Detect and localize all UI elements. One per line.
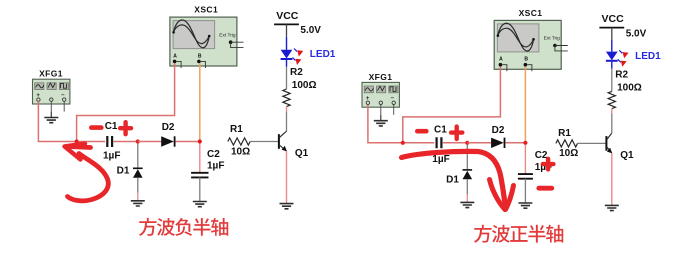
- wire D1 node to D2 anode (left): [138, 141, 161, 143]
- diode D2 series (right): [491, 125, 505, 148]
- svg-text:Q1: Q1: [620, 150, 634, 161]
- oscilloscope XSC1 (right): [494, 8, 568, 71]
- svg-text:VCC: VCC: [602, 13, 625, 25]
- svg-text:Q1: Q1: [295, 148, 309, 159]
- junction: XFG output / scope A tap (right): [401, 141, 405, 145]
- svg-text:D2: D2: [162, 122, 175, 133]
- annotation: red spiral arrow pointing to input wire (left): [65, 144, 109, 201]
- svg-text:A: A: [173, 53, 177, 59]
- wire D1 node to D2 anode (right): [467, 142, 491, 144]
- annotation: red curved arrow over wire pointing down (right): [402, 151, 514, 209]
- wire XFG1 + output to main node (left): [38, 102, 105, 142]
- capacitor C2 1uF to ground (right): [518, 145, 552, 203]
- svg-text:C1: C1: [434, 125, 447, 136]
- LED1 light emitting diode (right): [606, 40, 661, 69]
- svg-text:R2: R2: [290, 67, 303, 78]
- wire scope channel A to input node (right): [403, 66, 501, 142]
- diode D2 series (left): [161, 122, 175, 147]
- svg-text:Ext Trig: Ext Trig: [544, 36, 561, 42]
- svg-text:VCC: VCC: [276, 10, 299, 22]
- svg-text:D1: D1: [117, 165, 130, 176]
- resistor R2 100 ohm (left): [283, 67, 317, 131]
- ground (C2, right): [518, 203, 532, 208]
- wire C1 to D1/D2 junction (right): [443, 142, 468, 144]
- wire R1 to Q1 base (left): [250, 141, 279, 143]
- junction: D2 / C2 / R1 / scope B node (left): [198, 139, 202, 143]
- ground (Q1 emitter, right): [605, 205, 619, 210]
- diode D1 shunt to ground (right): [446, 145, 472, 203]
- svg-text:10Ω: 10Ω: [231, 147, 250, 158]
- svg-text:LED1: LED1: [635, 51, 661, 62]
- wire XFG1 + output to main node (right): [367, 105, 434, 143]
- annotation: red plus sign at C1 right (right): [451, 127, 462, 139]
- annotation: caption 方波负半轴 (left): [139, 218, 228, 236]
- wire C1 to D1/D2 junction (left): [114, 141, 138, 143]
- svg-text:1µF: 1µF: [103, 150, 120, 161]
- junction: XFG output / scope A tap (left): [75, 139, 79, 143]
- wire D2 cathode to C2/R1 node (left): [175, 141, 199, 143]
- annotation: red plus sign at C1 right (left): [120, 122, 131, 134]
- resistor R2 100 ohm (right): [608, 69, 642, 134]
- wire scope channel B to detector node, orange (left): [199, 63, 201, 141]
- svg-text:R1: R1: [558, 128, 571, 139]
- VCC power rail 5.0V (right): [599, 13, 646, 40]
- svg-text:XSC1: XSC1: [519, 8, 543, 18]
- VCC power rail 5.0V (left): [274, 10, 321, 37]
- annotation: red minus sign at C1 left (right): [417, 129, 426, 134]
- ground (XFG1 common, left): [44, 112, 58, 123]
- transistor Q1 NPN (left): [279, 131, 309, 159]
- svg-text:1µF: 1µF: [207, 161, 224, 172]
- annotation: red plus sign at C2 (right): [543, 159, 554, 170]
- svg-text:Ext Trig: Ext Trig: [219, 32, 236, 38]
- ground (C2, left): [193, 202, 207, 207]
- svg-text:XFG1: XFG1: [369, 72, 393, 82]
- wire Q1 collector to R2 (left): [286, 130, 288, 132]
- annotation: red minus sign at C1 left (left): [91, 125, 101, 130]
- annotation: caption 方波正半轴 (right): [474, 225, 563, 243]
- svg-text:B: B: [524, 57, 528, 63]
- diode D1 shunt to ground (left): [117, 144, 143, 201]
- ground (Q1 emitter, left): [280, 204, 294, 209]
- svg-text:D2: D2: [492, 125, 505, 136]
- ground (XFG1 common, right): [374, 115, 388, 126]
- ground (D1 anode, left): [131, 201, 145, 206]
- transistor Q1 NPN (right): [606, 133, 634, 161]
- svg-text:C1: C1: [105, 121, 118, 132]
- svg-text:A: A: [499, 57, 503, 63]
- annotation: red minus sign below C2 (right): [539, 186, 552, 191]
- wire scope channel A to input node (left): [77, 63, 175, 141]
- wire Q1 emitter to ground (left): [286, 151, 288, 204]
- svg-text:D1: D1: [446, 175, 459, 186]
- svg-text:10Ω: 10Ω: [559, 148, 578, 159]
- wire scope channel B to detector node, orange (right): [524, 66, 526, 142]
- svg-text:XSC1: XSC1: [194, 5, 218, 15]
- resistor R1 10 ohm (left): [228, 124, 250, 158]
- junction: D2 / C2 / R1 / scope B node (right): [523, 141, 527, 145]
- oscilloscope XSC1 (left): [170, 5, 244, 69]
- wire Q1 emitter to ground (right): [611, 153, 613, 205]
- svg-text:XFG1: XFG1: [39, 69, 63, 79]
- resistor R1 10 ohm (right): [556, 128, 578, 159]
- svg-text:100Ω: 100Ω: [292, 80, 317, 91]
- wire R1 to Q1 base (right): [578, 142, 607, 144]
- capacitor C2 1uF to ground (left): [191, 144, 224, 202]
- svg-text:B: B: [198, 53, 202, 59]
- capacitor C1 1uF (right): [432, 125, 449, 166]
- junction: C1 / D1 / D2 node (left): [136, 139, 140, 143]
- svg-text:1µF: 1µF: [432, 154, 449, 165]
- svg-text:5.0V: 5.0V: [300, 25, 321, 36]
- LED1 light emitting diode (left): [281, 37, 336, 67]
- junction: C1 / D1 / D2 node (right): [465, 141, 469, 145]
- wire Q1 collector to R2 (right): [611, 132, 613, 134]
- svg-text:C2: C2: [207, 149, 220, 160]
- svg-text:R2: R2: [615, 70, 628, 81]
- capacitor C1 1uF (left): [103, 121, 120, 162]
- wire D2 cathode to C2/R1 node (right): [505, 142, 525, 144]
- svg-text:5.0V: 5.0V: [626, 28, 647, 39]
- svg-text:100Ω: 100Ω: [617, 83, 642, 94]
- svg-text:LED1: LED1: [310, 49, 336, 60]
- function generator XFG1 (right): [362, 72, 399, 115]
- function generator XFG1 (left): [33, 69, 70, 112]
- svg-text:R1: R1: [230, 124, 243, 135]
- ground (D1 anode, right): [460, 202, 474, 207]
